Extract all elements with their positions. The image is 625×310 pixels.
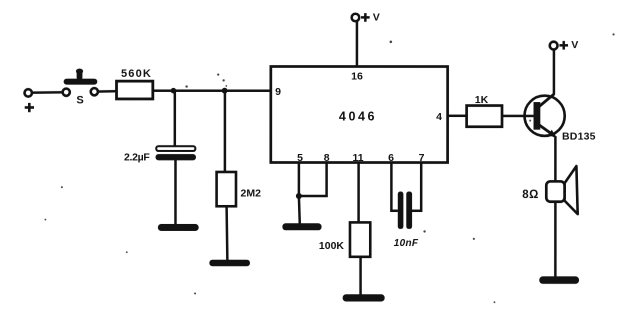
wire pin 5 (298, 162, 301, 196)
wire (32, 91, 62, 94)
wire pin 11 (357, 163, 360, 223)
svg-text:5: 5 (297, 152, 303, 164)
svg-text:2.2µF: 2.2µF (124, 152, 150, 164)
svg-text:V: V (373, 12, 380, 24)
IC U1 4046 (271, 66, 448, 162)
wire (174, 160, 177, 225)
node + input terminal (25, 89, 32, 96)
power +V (collector supply) (550, 42, 558, 50)
svg-text:4: 4 (436, 111, 442, 123)
wire pin 6 (391, 163, 398, 211)
svg-text:10nF: 10nF (394, 238, 419, 249)
svg-text:100K: 100K (319, 240, 345, 252)
ground (209, 260, 250, 267)
speaker LS1 (546, 166, 577, 214)
wire pin 7 (412, 163, 421, 211)
ground (158, 224, 199, 231)
capacitor C2 10nF (398, 192, 412, 229)
wire (553, 50, 556, 95)
wire (356, 21, 359, 66)
svg-text:9: 9 (275, 86, 281, 98)
wire pin 8 (299, 162, 327, 196)
wire (359, 257, 362, 295)
transistor Q1 BD135 (523, 94, 565, 137)
svg-text:11: 11 (352, 152, 363, 164)
power +V (IC supply) (352, 14, 360, 22)
svg-text:560K: 560K (121, 68, 152, 80)
svg-text:4046: 4046 (339, 110, 377, 124)
ground (539, 276, 579, 284)
junction node B (222, 88, 228, 94)
wire (153, 89, 271, 92)
label + (input polarity) (25, 103, 34, 112)
resistor R4 100K (350, 222, 370, 256)
resistor 560K (117, 81, 153, 99)
wire (298, 196, 301, 224)
wire pin 4 (448, 115, 467, 118)
wire (554, 136, 557, 277)
svg-text:S: S (76, 94, 83, 106)
ground (282, 223, 321, 230)
svg-text:7: 7 (419, 152, 425, 164)
wire (98, 90, 117, 93)
ground (343, 294, 385, 301)
svg-text:6: 6 (388, 152, 394, 164)
wire (502, 115, 533, 118)
scan speckle noise (44, 33, 614, 303)
svg-text:V: V (571, 39, 578, 51)
capacitor C1 2.2uF (155, 146, 196, 160)
pushbutton switch S (63, 69, 98, 96)
svg-text:16: 16 (351, 70, 363, 82)
svg-text:8Ω: 8Ω (522, 189, 539, 201)
label +V (361, 12, 380, 24)
svg-text:8: 8 (324, 152, 330, 164)
wire (174, 91, 177, 147)
resistor R3 1K (467, 106, 502, 127)
label +V (559, 39, 578, 51)
junction node A (171, 88, 177, 94)
wire (225, 206, 228, 260)
svg-text:BD135: BD135 (562, 131, 596, 143)
svg-text:1K: 1K (475, 94, 489, 106)
resistor R2 2M2 (217, 172, 236, 206)
junction node C (296, 193, 302, 199)
svg-text:2M2: 2M2 (240, 187, 261, 199)
wire (224, 91, 227, 173)
